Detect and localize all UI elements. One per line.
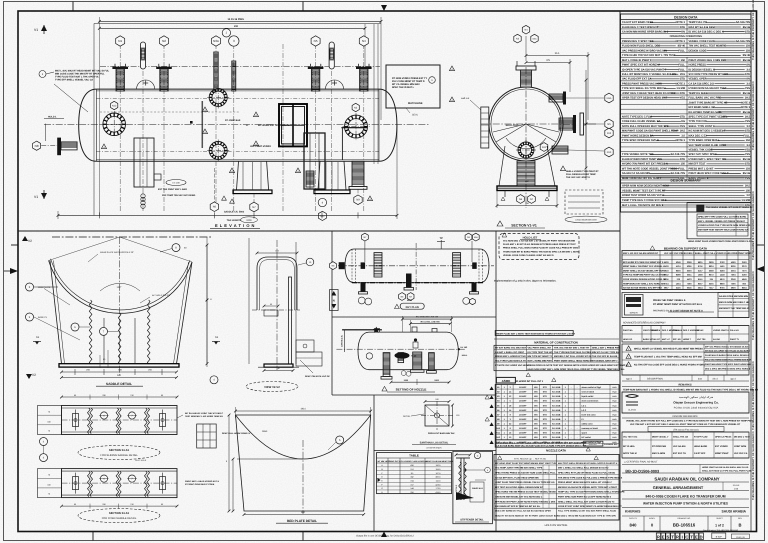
nozzle N3A top x=216 [214, 52, 218, 91]
elevation second dimension line [99, 27, 365, 29]
base [264, 364, 293, 367]
right vertical dim [206, 237, 208, 367]
center chain line [276, 240, 278, 370]
stiffener drawing [460, 458, 462, 500]
order info table [622, 431, 749, 433]
weld zigzag black marks [459, 462, 462, 497]
dome cap shape [257, 257, 297, 310]
maker logo block [622, 293, 749, 318]
delta marks near saddle [222, 196, 227, 200]
approved row [622, 374, 749, 376]
company logo [626, 395, 638, 406]
margin delta triangles [490, 386, 494, 390]
centering arrows [381, 5, 387, 11]
RESTRICTED stamp below frame [656, 533, 703, 540]
north compass box [330, 290, 339, 311]
title block company row [622, 392, 749, 413]
base dims [264, 370, 293, 372]
small TABLE [377, 453, 452, 494]
section S1-S1 detail at y=468.6 [62, 469, 178, 498]
drain coil [141, 194, 145, 198]
saddle web sides [50, 261, 62, 364]
datum chain line across nozzle flanges [100, 65, 380, 67]
saddle left (elevation) [233, 161, 272, 193]
vessel inner wall lines [96, 90, 379, 92]
bottom dimension line elevation [58, 214, 397, 216]
scattered revision triangles on elevation [202, 107, 207, 112]
setting of nozzle view [358, 332, 458, 370]
top nozzle centerlines [119, 44, 121, 212]
nozzle right middle [559, 118, 573, 130]
right balloon column [605, 93, 613, 103]
nozzle N4 top x=363.8 [360, 69, 368, 91]
view v2-v2 label [246, 382, 298, 392]
nozzle N2 top x=164 [160, 69, 168, 91]
vortex dome left [137, 80, 155, 89]
region separator lines [18, 230, 620, 232]
key plan vessel [345, 249, 489, 283]
hold list note box [499, 234, 579, 260]
right leader dims [466, 469, 485, 471]
base plate saddle [59, 364, 179, 367]
internal level lines [96, 98, 379, 100]
section S1-S1 detail at y=405.5 [62, 406, 178, 435]
saddle under end view [499, 146, 555, 186]
bottom nozzles heavy [361, 283, 366, 292]
left head nozzle N8 [61, 142, 77, 150]
nozzle N1 top x=120.2 [116, 69, 124, 91]
certification row [622, 457, 749, 459]
boxed note strip [495, 331, 573, 336]
number strip [643, 516, 645, 532]
level bridle below left [134, 138, 154, 187]
centerlines [481, 123, 573, 125]
nozzle cluster hanging below [383, 353, 390, 377]
saddle left balloons [26, 283, 34, 291]
bed plate detail [236, 415, 371, 511]
ladder clip left [481, 107, 489, 148]
small left dims [99, 355, 101, 368]
TP flag center [440, 240, 442, 249]
lower bracket right [296, 340, 314, 352]
bottom balloons [399, 293, 406, 301]
matchline note box top-right [386, 65, 440, 108]
schedule bottom merged rows [495, 439, 619, 441]
top dim [257, 252, 297, 254]
extension lines [98, 17, 100, 216]
balloon cluster above [514, 34, 521, 43]
internal vortex lines [493, 124, 559, 142]
head tangent seams [95, 89, 97, 161]
nozzle lower right [552, 146, 568, 154]
elevation top dimension line [99, 20, 381, 22]
radius construction lines [49, 237, 120, 261]
platform clip box on shell [279, 104, 307, 146]
balloon 4 markers between sections [40, 438, 48, 446]
vessel left head [79, 89, 97, 161]
left end nozzle heavy [339, 262, 345, 269]
level gauge frame below center [304, 133, 325, 189]
anchor bolts [504, 191, 506, 198]
nozzle upper right [549, 94, 563, 102]
top balloons [364, 241, 366, 262]
vortex dome right [325, 80, 343, 89]
nozzle N5 top x=315.6 [311, 69, 319, 91]
instrument capsule x=143 [140, 42, 145, 69]
SECTION V1-V1 label [497, 221, 503, 226]
manway left (gear flange) [103, 113, 126, 136]
vessel centerline [44, 124, 430, 126]
vertical web edge lines [103, 318, 105, 363]
vessel right head [379, 89, 397, 161]
diagonal leader [300, 360, 313, 373]
nozzle data table [494, 454, 619, 520]
datum line with star [342, 329, 382, 331]
vertical dim right of view [585, 70, 587, 180]
key plan nozzle marks on centerline [361, 262, 366, 269]
dim lines above end view [526, 55, 588, 57]
design data table [621, 14, 752, 212]
top clamp [456, 457, 470, 459]
approval strip table [622, 326, 749, 343]
vertical rib plate [289, 277, 292, 364]
zigzag stiffeners [89, 300, 92, 364]
triangle by hold list [502, 233, 507, 237]
left small bracket dims [264, 310, 278, 316]
stiffener detail box [453, 451, 493, 523]
top nozzle on end view [521, 70, 532, 87]
base dim line [497, 205, 557, 207]
saddle web plates [517, 161, 535, 186]
internal circle pair at x=216.7 [209, 88, 227, 106]
earthing lug detail [425, 405, 449, 426]
internal hatched boxes [374, 253, 382, 277]
right top balloon pair [465, 233, 472, 241]
extension outline [248, 238, 250, 364]
heavy bottom chain [352, 282, 483, 284]
scan noise overlay [0, 0, 1, 1]
top chain line [52, 236, 212, 238]
small stamp block right under design table [687, 203, 751, 239]
center small nozzle mark [414, 338, 417, 341]
vendor ref rows [622, 412, 749, 414]
nozzle schedule table [495, 385, 619, 448]
bed plate dims [236, 410, 371, 412]
revision note rows [622, 344, 749, 375]
saddle dims below [62, 371, 177, 373]
center vertical chain [415, 243, 417, 290]
remarks header [622, 380, 749, 382]
nozzle 3 top x=233.8 [232, 61, 236, 91]
shell circle [489, 87, 563, 161]
setting label [382, 386, 387, 391]
anchor bolt detail small right [197, 424, 217, 448]
instrument capsule x=331.7 [329, 42, 334, 69]
elevation boundary lines [94, 23, 381, 25]
small fittings on top [375, 329, 380, 333]
vessel shell [96, 89, 379, 161]
design summary header [621, 176, 752, 178]
saddle right (elevation) [314, 161, 350, 193]
down nozzle N9 [352, 161, 364, 186]
manway right [345, 115, 368, 138]
base plate [497, 186, 557, 191]
shell arc (double) [49, 261, 192, 314]
material of construction table [494, 338, 619, 340]
center vertical chain [119, 237, 121, 375]
dashed detail box lower right [565, 190, 603, 214]
asme stamp row [496, 377, 515, 383]
internal nozzle circle N11 [518, 142, 534, 158]
bottom dim [391, 381, 449, 383]
oval POS label [395, 352, 410, 358]
dim lines top right [402, 318, 451, 320]
